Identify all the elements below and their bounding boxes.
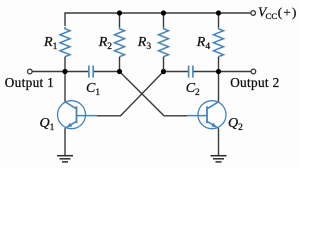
wire R3 top stub: [163, 13, 165, 27]
wire cross-couple B to Q2 base: [120, 72, 188, 116]
wire R2 bottom stub: [119, 57, 121, 72]
capacitor C1: [89, 66, 93, 78]
wire R1 bottom stub: [64, 57, 66, 72]
node junction below R1: [62, 69, 67, 74]
wire Output1 to C1: [32, 71, 88, 73]
ground under Q1: [57, 156, 73, 162]
resistor R4: [214, 27, 224, 57]
wire R3 bottom stub: [163, 57, 165, 72]
node Output 1 terminal: [28, 69, 33, 74]
wire node C to C2: [164, 71, 188, 73]
svg-text:(+): (+): [278, 5, 298, 20]
node Output 2 terminal: [251, 69, 256, 74]
resistor R2: [115, 27, 125, 57]
resistor R3: [159, 27, 169, 57]
node junction above R3: [161, 10, 166, 15]
wire R4 bottom stub: [218, 57, 220, 72]
svg-text:R1: R1: [43, 35, 58, 52]
svg-text:R4: R4: [196, 35, 211, 52]
wire R4 top stub: [218, 13, 220, 27]
node junction below R4: [216, 69, 221, 74]
wire Q2 collector vertical: [218, 72, 220, 102]
svg-text:Q1: Q1: [40, 116, 55, 133]
wire cross-couple C to Q1 base: [97, 72, 164, 116]
svg-text:CC: CC: [266, 11, 278, 21]
svg-text:C2: C2: [186, 81, 200, 98]
node Vcc terminal: [251, 11, 256, 16]
node junction above R2: [117, 10, 122, 15]
svg-text:Output 1: Output 1: [5, 75, 54, 90]
svg-text:C1: C1: [86, 81, 100, 98]
wire node D to Output 2: [219, 71, 251, 73]
resistor R1: [60, 27, 70, 57]
ground under Q2: [211, 156, 227, 162]
svg-text:R2: R2: [98, 35, 113, 52]
transistor Q1: [58, 101, 98, 129]
node junction below R2: [117, 69, 122, 74]
svg-text:Output 2: Output 2: [230, 75, 279, 90]
wire C2 to node D: [194, 71, 219, 73]
capacitor C2: [189, 66, 193, 78]
transistor Q2: [187, 101, 226, 129]
node junction above R4: [216, 10, 221, 15]
wire Q1 emitter to ground: [64, 128, 66, 155]
wire Q1 collector vertical: [64, 72, 66, 102]
svg-text:Q2: Q2: [228, 116, 243, 133]
wire Q2 emitter to ground: [218, 128, 220, 155]
wire R2 top stub: [119, 13, 121, 27]
node junction below R3: [161, 69, 166, 74]
wire top rail: [65, 13, 251, 26]
wire C1 to node B: [94, 71, 120, 73]
svg-text:R3: R3: [137, 35, 152, 52]
